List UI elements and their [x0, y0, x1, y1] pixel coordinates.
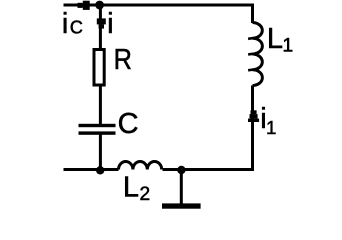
label L2 — [123, 171, 150, 205]
node bottom left junction — [96, 166, 104, 174]
inductor L2 — [119, 161, 162, 169]
svg-text:L: L — [123, 171, 139, 203]
inductor L1 — [248, 23, 262, 86]
svg-text:L: L — [267, 23, 283, 55]
svg-text:1: 1 — [266, 117, 276, 138]
svg-text:1: 1 — [282, 34, 293, 56]
wire bottom left horizontal — [64, 168, 119, 171]
svg-text:i: i — [107, 8, 113, 40]
node top junction — [95, 1, 104, 10]
wire between resistor and capacitor — [99, 87, 102, 125]
ground — [162, 170, 201, 209]
svg-text:i: i — [62, 8, 68, 40]
label i1 — [260, 103, 276, 138]
current arrow i (down) — [97, 18, 106, 28]
label L1 — [267, 23, 293, 56]
current arrow i1 — [248, 110, 259, 122]
wire right vertical lower with bottom-left corner — [163, 86, 253, 170]
wire top horizontal with right corner — [64, 5, 253, 23]
resistor R — [94, 50, 104, 86]
wire between capacitor and bottom wire — [99, 135, 102, 171]
svg-text:C: C — [118, 108, 139, 140]
node bottom right junction — [177, 166, 185, 174]
svg-text:2: 2 — [140, 184, 151, 205]
label iC — [62, 8, 83, 40]
svg-text:C: C — [70, 18, 83, 38]
current arrow iC (left) on top wire — [78, 1, 90, 10]
svg-text:R: R — [114, 42, 132, 75]
wire left vertical top segment — [99, 5, 102, 48]
capacitor C — [79, 124, 116, 135]
